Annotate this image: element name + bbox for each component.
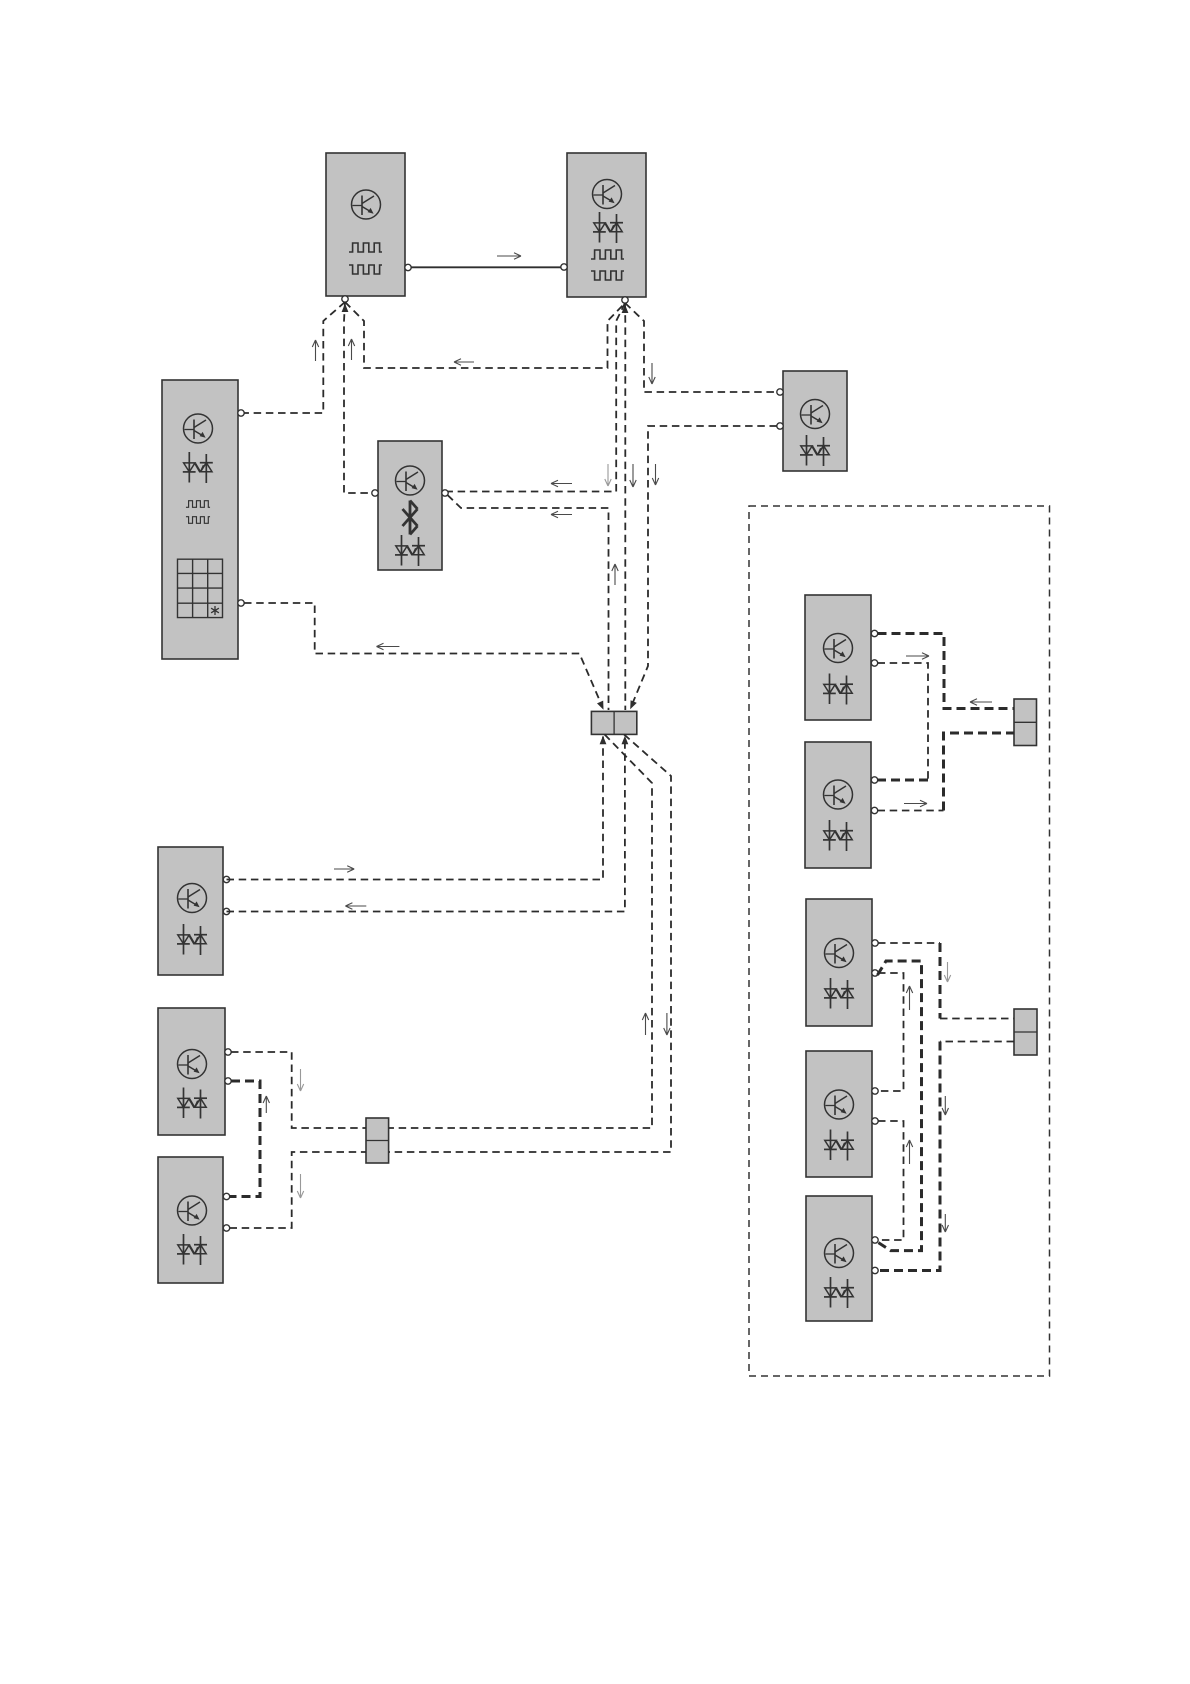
lamp unit 2 — [805, 742, 878, 868]
wire: receiver E bottom pin to splice block J1 — [630, 426, 777, 709]
wire: A bottom to B bottom return line — [345, 302, 625, 368]
wire: load unit H bottom pin to splice block J2 — [230, 1152, 367, 1228]
junction arrow into A bottom pin — [342, 304, 349, 313]
wire: splice block J1 left cell to splice block J2 top — [389, 734, 652, 1128]
load unit F — [158, 847, 230, 975]
control unit B (PWM receiver with triac) — [561, 153, 646, 303]
wire: splice block J1 to load unit F bottom pin — [227, 736, 629, 912]
control unit D (bluetooth module) — [372, 441, 448, 570]
wire: lamp unit 1 bottom pin to lamp unit 2 top pin — [878, 653, 930, 780]
lamp unit 3 — [806, 899, 878, 1026]
wire: keypad controller bottom pin to splice block J1 — [244, 603, 604, 710]
wire: lamp unit 4 bottom pin to lamp unit 5 top pin — [878, 1121, 913, 1240]
control unit C (keypad controller) — [162, 380, 244, 659]
wire: lamp unit 3 bottom pin to lamp unit 5 top pin (bold) — [878, 961, 922, 1251]
wire: B bottom to bluetooth module right pin — [448, 303, 625, 492]
junction arrow into B bottom pin — [622, 305, 629, 314]
wire: splice block J1 right cell to splice block J2 bottom — [389, 734, 671, 1152]
load unit G — [158, 1008, 231, 1135]
wire: lamp unit 2 bottom pin to splice block J3 — [878, 733, 1015, 811]
wire: A to B control link (solid) — [411, 253, 561, 267]
wire: load unit G top pin to splice block J2 — [231, 1052, 366, 1128]
wire: lamp unit 1 top pin to splice block J3 (bold) — [878, 634, 1015, 709]
control unit E (receiver) — [777, 371, 847, 471]
wire: B bottom to center splice block J1 — [625, 303, 636, 710]
lamp unit 5 — [806, 1196, 878, 1321]
lamp unit 4 — [806, 1051, 878, 1177]
wire: splice block J1 to load unit F top pin — [227, 736, 607, 880]
splice block J2 (lower left) — [366, 1118, 389, 1163]
splice block J1 (center) — [591, 711, 636, 734]
splice block J3 (right panel top) — [1014, 699, 1037, 746]
control unit A (PWM transmitter) — [326, 153, 411, 302]
enclosure boundary (dashed) — [749, 506, 1050, 1376]
wire: A bottom to keypad controller top pin — [244, 302, 345, 413]
lamp unit 1 — [805, 595, 878, 720]
wire: load unit G bottom pin to load unit H top pin (bold) — [230, 1081, 270, 1197]
wire: splice block J4 to lamp unit 5 bottom pin (bold) — [878, 1042, 1014, 1271]
wire: B bottom to receiver E top pin — [625, 303, 777, 392]
splice block J4 (right panel bottom) — [1014, 1009, 1037, 1055]
wire: A bottom to bluetooth module left pin — [344, 302, 372, 493]
load unit H — [158, 1157, 230, 1283]
wire: lamp unit 3 bottom pin to lamp unit 4 top pin — [878, 973, 913, 1091]
wire: bluetooth module right pin to splice block J1 — [448, 495, 619, 710]
wire: lamp unit 3 top pin to splice block J4 — [878, 943, 1014, 1019]
